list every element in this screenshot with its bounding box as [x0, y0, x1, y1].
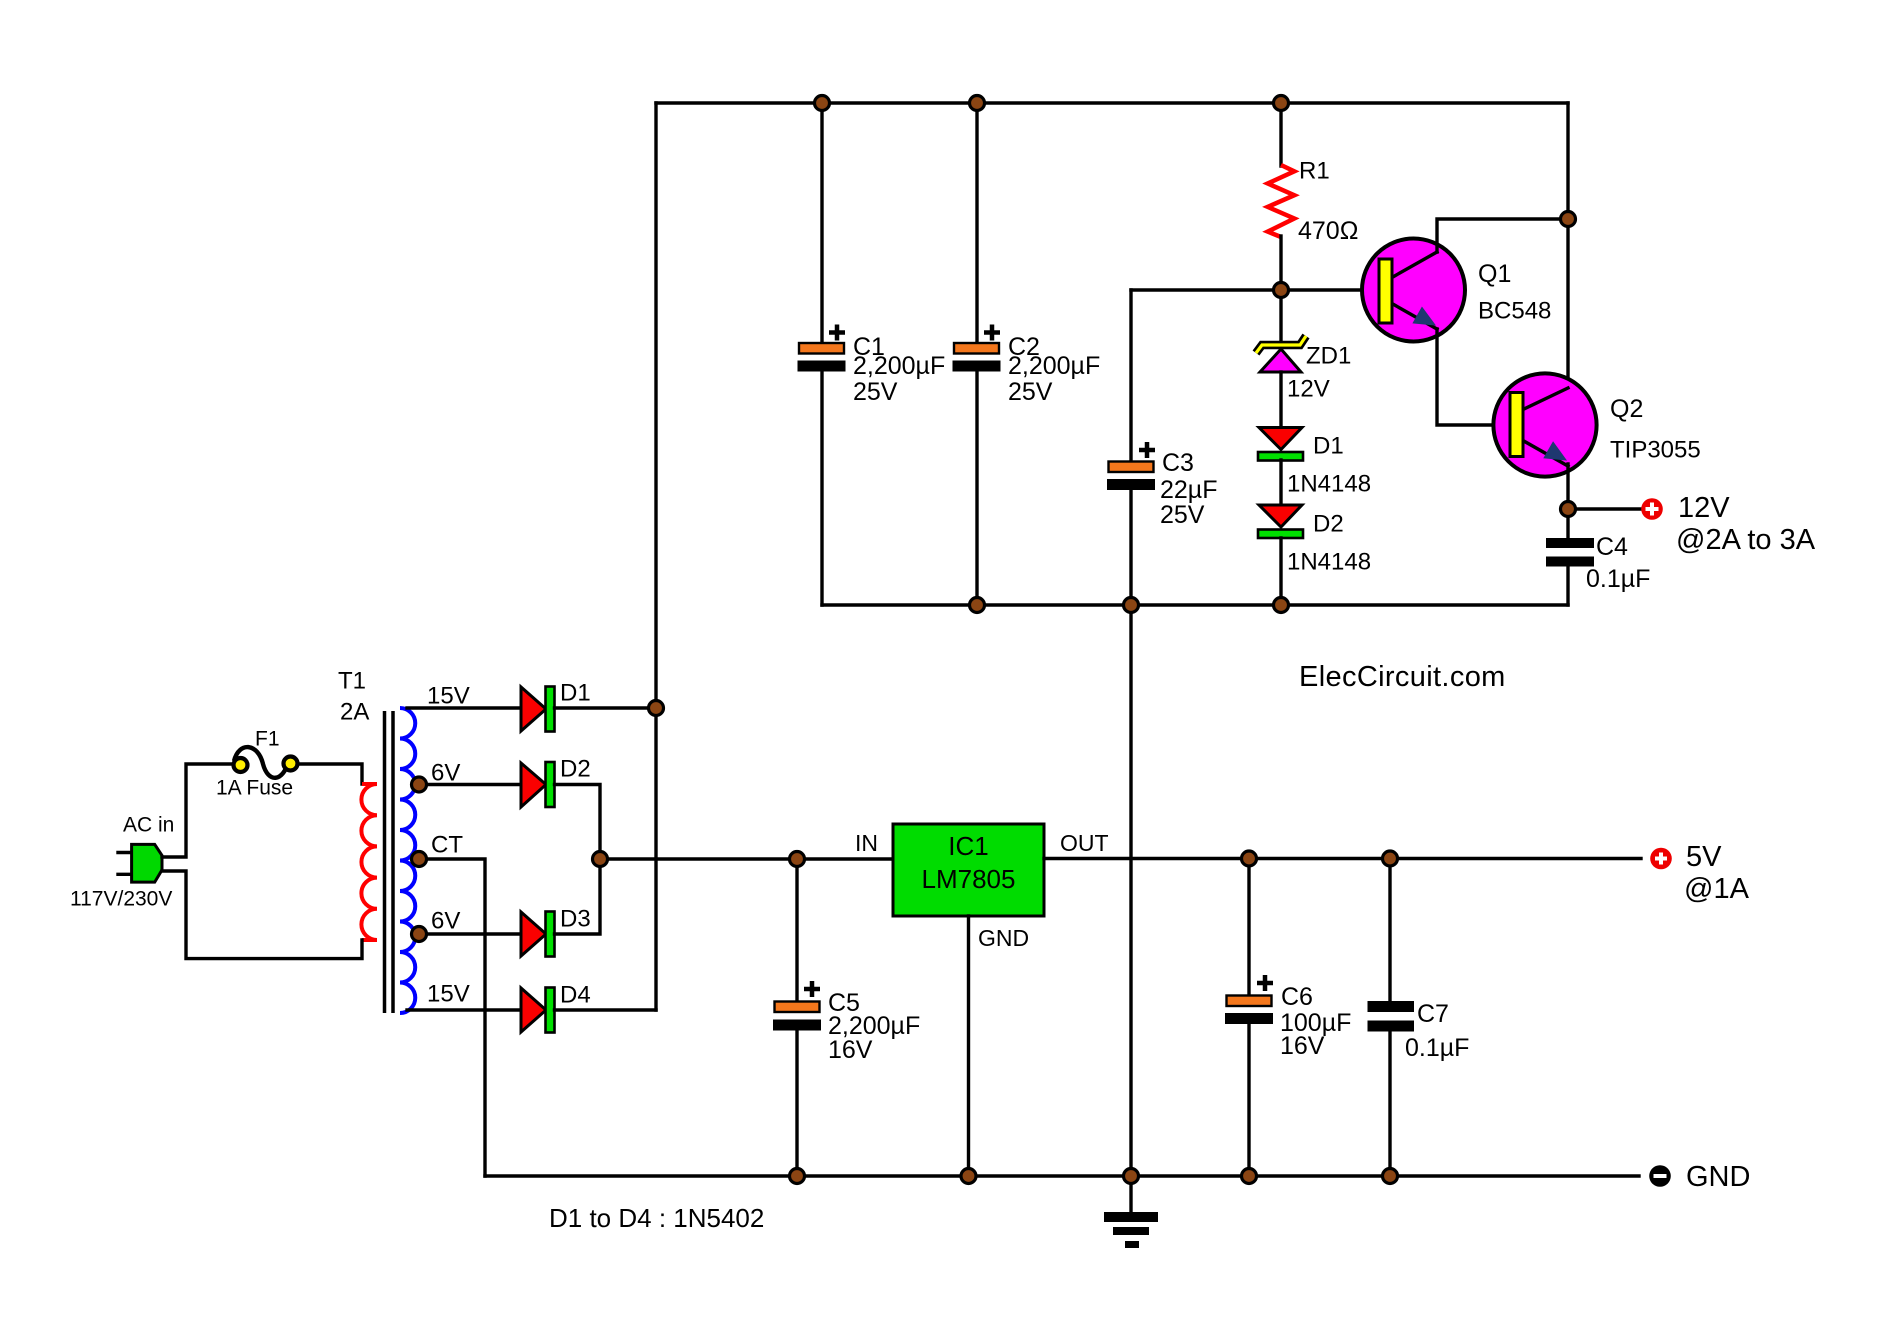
wire C6 stems: [1247, 859, 1250, 1177]
svg-text:Q1: Q1: [1478, 260, 1511, 288]
svg-text:117V/230V: 117V/230V: [70, 888, 172, 911]
capacitor C2: [953, 325, 1001, 372]
node ground middle vertical: [1124, 1169, 1139, 1184]
node bottom rail C3: [1124, 598, 1139, 613]
wire base row from C3 corner to Q1 base: [1131, 288, 1381, 291]
wire Q1 emitter to Q2 base: [1437, 329, 1512, 425]
svg-text:2,200µF: 2,200µF: [853, 352, 945, 380]
svg-text:12V: 12V: [1287, 376, 1330, 403]
wire CT tap to ground rail: [417, 859, 485, 1176]
svg-text:12V: 12V: [1678, 492, 1730, 524]
svg-text:D2: D2: [1313, 511, 1344, 538]
node ground IC: [961, 1169, 976, 1184]
node top rail C2: [970, 96, 985, 111]
svg-text:CT: CT: [431, 832, 463, 859]
terminal 12V positive: [1641, 498, 1663, 520]
wire 6V lower tap: [417, 932, 520, 935]
svg-text:1N4148: 1N4148: [1287, 471, 1371, 498]
capacitor C7: [1368, 1001, 1415, 1032]
svg-text:1A Fuse: 1A Fuse: [216, 777, 293, 800]
svg-text:D2: D2: [560, 756, 591, 783]
wire C2 stems: [975, 103, 978, 605]
wire C3 bottom stem: [1129, 490, 1132, 605]
zener diode ZD1: [1256, 336, 1306, 372]
wire R1 bottom stem: [1279, 236, 1282, 290]
svg-text:16V: 16V: [828, 1036, 873, 1064]
node R1/ZD1/base junction: [1274, 283, 1289, 298]
wire junction to ZD1: [1279, 290, 1282, 340]
svg-text:C3: C3: [1162, 449, 1194, 477]
node top rail R1: [1274, 96, 1289, 111]
wire D2 cathode down to junction: [555, 785, 601, 860]
wire middle vertical to ground rail: [1129, 605, 1132, 1176]
svg-text:D3: D3: [560, 906, 591, 933]
wire 15V top tap: [407, 706, 520, 709]
svg-text:ZD1: ZD1: [1306, 343, 1351, 370]
svg-text:D1 to D4 : 1N5402: D1 to D4 : 1N5402: [549, 1203, 764, 1233]
node C5 top: [790, 852, 805, 867]
svg-text:15V: 15V: [427, 981, 470, 1008]
diode D2 (bridge): [521, 762, 555, 807]
capacitor C5: [773, 981, 821, 1031]
node ground C6: [1242, 1169, 1257, 1184]
svg-text:C7: C7: [1417, 1000, 1449, 1028]
node 12V output junction: [1561, 502, 1576, 517]
svg-text:6V: 6V: [431, 908, 460, 935]
diode D4 (bridge): [521, 988, 555, 1033]
transformer T1 secondary winding: [400, 708, 415, 1013]
AC plug P1: [118, 844, 162, 882]
wire D2 to bottom rail: [1279, 538, 1282, 605]
diode D1 (1N4148): [1258, 428, 1303, 461]
wire R1 top stem: [1279, 103, 1282, 166]
svg-text:GND: GND: [1686, 1161, 1750, 1193]
wire 15V bottom tap: [407, 1008, 520, 1011]
wire D3 cathode up to junction: [555, 859, 601, 934]
wire C5 stems: [795, 859, 798, 1176]
node Q1 collector junction: [1561, 212, 1576, 227]
svg-text:@2A to 3A: @2A to 3A: [1676, 524, 1816, 556]
svg-text:D1: D1: [1313, 433, 1344, 460]
svg-text:C4: C4: [1596, 533, 1628, 561]
op-amp IC1 LM7805 regulator: [893, 824, 1044, 916]
node bottom rail C2: [970, 598, 985, 613]
svg-text:TIP3055: TIP3055: [1610, 437, 1701, 464]
svg-text:25V: 25V: [1160, 501, 1205, 529]
capacitor C3: [1107, 442, 1155, 490]
svg-text:D1: D1: [560, 680, 591, 707]
wire Q2 emitter to C4: [1566, 464, 1569, 539]
svg-text:@1A: @1A: [1684, 873, 1750, 905]
wire rectified row to IC IN: [600, 857, 893, 860]
capacitor C4: [1546, 538, 1594, 567]
svg-text:ElecCircuit.com: ElecCircuit.com: [1299, 661, 1506, 693]
node C7 top: [1383, 851, 1398, 866]
diode D2 (1N4148): [1258, 505, 1303, 538]
wire ZD1 to D1: [1279, 372, 1282, 430]
wire C1 stems: [820, 103, 823, 605]
wire C4 bottom stem: [1566, 567, 1569, 606]
svg-text:15V: 15V: [427, 683, 470, 710]
svg-text:D4: D4: [560, 982, 591, 1009]
transistor Q2 TIP3055: [1493, 373, 1596, 476]
node top rail C1: [815, 96, 830, 111]
svg-text:R1: R1: [1299, 158, 1330, 185]
node 6V lower tap: [412, 927, 427, 942]
svg-text:LM7805: LM7805: [922, 864, 1016, 894]
svg-text:16V: 16V: [1280, 1032, 1325, 1060]
wire Q1 collector to right vertical: [1437, 219, 1568, 252]
wire D1 cathode to node: [555, 706, 657, 709]
wire 12V tap: [1568, 507, 1642, 510]
node ground C7: [1383, 1169, 1398, 1184]
svg-text:1N4148: 1N4148: [1287, 549, 1371, 576]
ground symbol: [1104, 1176, 1158, 1248]
terminal GND: [1649, 1165, 1671, 1187]
svg-text:25V: 25V: [1008, 378, 1053, 406]
node CT tap: [412, 852, 427, 867]
svg-text:AC in: AC in: [123, 814, 174, 837]
node rectified junction: [593, 852, 608, 867]
svg-text:2,200µF: 2,200µF: [1008, 352, 1100, 380]
wire left vertical from top rail to D4: [654, 103, 657, 1010]
wire right vertical to Q2 collector: [1566, 103, 1569, 390]
wire plug top stub to fuse: [162, 764, 233, 857]
svg-text:2A: 2A: [340, 699, 369, 726]
terminal 5V positive: [1650, 848, 1672, 870]
svg-text:BC548: BC548: [1478, 298, 1551, 325]
wire D1 to D2: [1279, 460, 1282, 507]
wire bottom rail of 12V section: [822, 603, 1568, 606]
capacitor C6: [1225, 975, 1273, 1024]
svg-text:OUT: OUT: [1060, 830, 1109, 856]
svg-text:GND: GND: [978, 925, 1029, 951]
node bottom rail zener chain: [1274, 598, 1289, 613]
svg-text:T1: T1: [338, 668, 366, 695]
svg-text:0.1µF: 0.1µF: [1405, 1034, 1469, 1062]
node C6 top: [1242, 851, 1257, 866]
node D1/D4 junction: [649, 701, 664, 716]
svg-text:5V: 5V: [1686, 841, 1722, 873]
svg-text:22µF: 22µF: [1160, 476, 1217, 504]
capacitor C1: [798, 325, 846, 372]
wire D4 cathode to left vertical: [555, 1008, 657, 1011]
fuse F1: [234, 747, 298, 778]
svg-text:Q2: Q2: [1610, 395, 1643, 423]
wire C7 stems: [1388, 859, 1391, 1177]
node 6V upper tap: [412, 777, 427, 792]
wire primary bottom to plug: [162, 871, 362, 959]
diode D3 (bridge): [521, 912, 555, 957]
svg-text:470Ω: 470Ω: [1298, 217, 1358, 245]
wire top rail: [656, 101, 1568, 104]
svg-text:25V: 25V: [853, 378, 898, 406]
resistor R1: [1268, 165, 1295, 237]
svg-text:0.1µF: 0.1µF: [1586, 565, 1650, 593]
svg-text:IN: IN: [855, 830, 878, 856]
wire C3 top stem: [1129, 290, 1132, 461]
transistor Q1 BC548: [1362, 239, 1465, 342]
svg-text:6V: 6V: [431, 760, 460, 787]
svg-text:F1: F1: [255, 728, 280, 751]
diode D1 (bridge): [521, 687, 555, 732]
transformer T1 core: [385, 711, 394, 1013]
svg-text:C6: C6: [1281, 983, 1313, 1011]
wire OUT row to 5V terminal: [1044, 857, 1641, 860]
wire IC GND pin: [967, 916, 970, 1176]
svg-text:IC1: IC1: [948, 831, 988, 861]
node ground C5: [790, 1169, 805, 1184]
wire fuse to primary top: [298, 764, 362, 784]
wire ground rail: [485, 1174, 1639, 1177]
transformer T1 primary winding: [361, 784, 377, 940]
wire 6V upper tap: [417, 783, 520, 786]
